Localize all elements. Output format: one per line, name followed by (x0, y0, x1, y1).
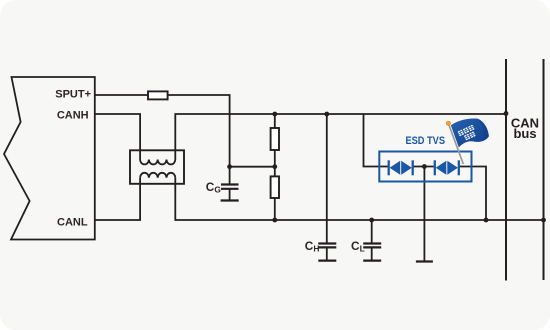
svg-text:H: H (313, 244, 319, 254)
svg-text:G: G (214, 184, 221, 194)
svg-text:CANH: CANH (57, 110, 89, 122)
svg-text:SPUT+: SPUT+ (55, 89, 91, 101)
svg-text:ESD TVS: ESD TVS (406, 135, 446, 147)
svg-text:CANL: CANL (57, 217, 88, 229)
svg-text:L: L (360, 244, 365, 254)
svg-text:bus: bus (513, 126, 536, 141)
